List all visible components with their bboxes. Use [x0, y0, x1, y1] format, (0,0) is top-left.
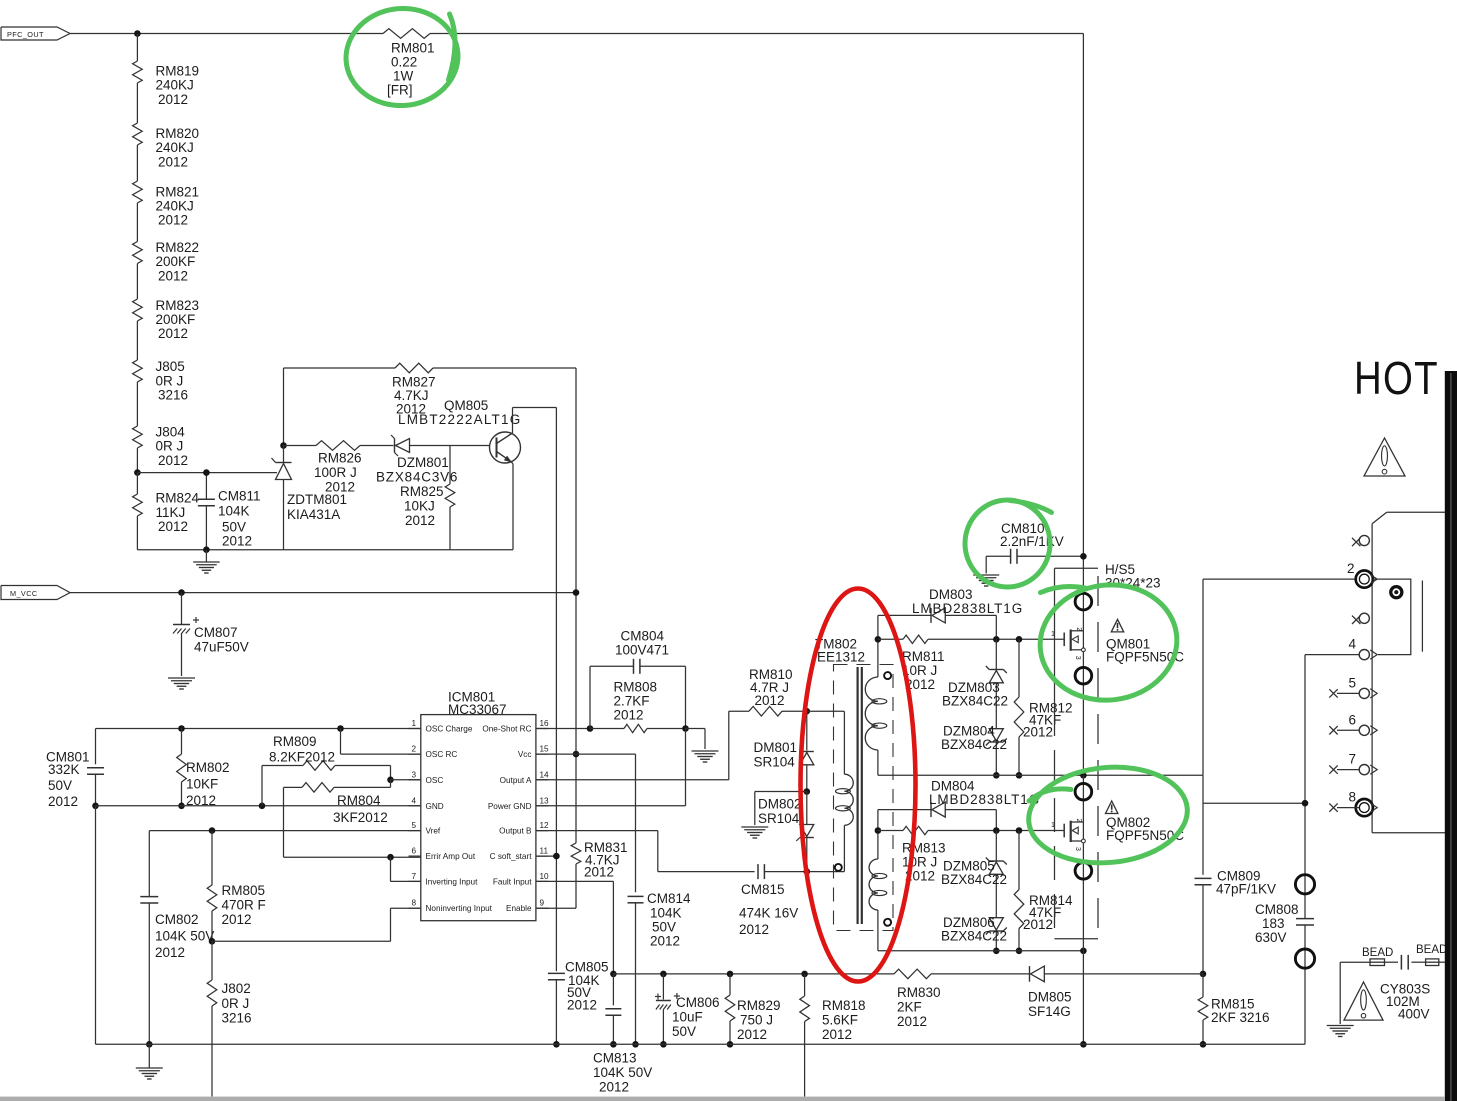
- capacitor CM810: [986, 521, 1083, 574]
- svg-text:4: 4: [1349, 637, 1357, 652]
- connector pin 5: [1329, 675, 1377, 698]
- resistor RM810: [749, 667, 807, 716]
- junction oneshot left: [587, 725, 594, 732]
- svg-text:200KF: 200KF: [156, 312, 196, 327]
- svg-text:One-Shot RC: One-Shot RC: [482, 725, 531, 734]
- junction pin8 node: [209, 938, 216, 945]
- junction lower rail main: [1080, 948, 1087, 955]
- svg-text:J802: J802: [222, 981, 251, 996]
- bottom band: [0, 1097, 1445, 1101]
- junction pin11 softstart: [553, 853, 560, 860]
- svg-text:RM808: RM808: [614, 680, 658, 695]
- connector pin 2: [1347, 561, 1377, 588]
- svg-text:50V: 50V: [652, 920, 676, 935]
- connector key mark: [1389, 585, 1403, 599]
- svg-text:BZX84C22: BZX84C22: [941, 929, 1007, 944]
- junction winding-top: [875, 636, 882, 643]
- wire pin8 jog: [212, 908, 421, 941]
- wire chain above junction: [136, 448, 138, 473]
- junction RM815 top: [1200, 971, 1207, 978]
- svg-text:RM830: RM830: [897, 985, 941, 1000]
- transformer lower secondary: [869, 831, 891, 951]
- wire primary top: [807, 710, 844, 712]
- svg-text:13: 13: [540, 796, 550, 805]
- svg-text:RM823: RM823: [156, 298, 200, 313]
- resistor RM824: [133, 491, 200, 534]
- zener DZM804 BZX84C22: [941, 724, 1007, 776]
- svg-text:2012: 2012: [158, 519, 188, 534]
- node M_VCC flag: [1, 586, 70, 600]
- resistor RM826: [284, 441, 394, 495]
- junction CM811 top: [203, 469, 210, 476]
- svg-text:11: 11: [540, 847, 549, 856]
- svg-text:104K 50V: 104K 50V: [593, 1065, 652, 1080]
- svg-text:2: 2: [1075, 819, 1082, 823]
- svg-text:2.2nF/1KV: 2.2nF/1KV: [1000, 534, 1064, 549]
- wire PFC_OUT top rail right: [430, 33, 1083, 35]
- junction CM815 DM802: [804, 868, 811, 875]
- svg-text:QM805: QM805: [444, 398, 488, 413]
- svg-text:RM829: RM829: [737, 998, 781, 1013]
- junction pin1 RM802: [178, 725, 185, 732]
- svg-text:1W: 1W: [393, 69, 414, 84]
- svg-text:200KF: 200KF: [156, 254, 196, 269]
- svg-text:1: 1: [1051, 631, 1055, 638]
- wire chain above RM819: [136, 34, 138, 62]
- svg-text:3: 3: [411, 770, 416, 779]
- svg-text:2012: 2012: [755, 693, 785, 708]
- svg-text:50V: 50V: [672, 1024, 696, 1039]
- svg-text:RM825: RM825: [400, 484, 444, 499]
- svg-text:2012: 2012: [48, 794, 78, 809]
- op-amp ICM801 pins: [409, 719, 550, 913]
- wire pgnd vertical: [685, 729, 687, 806]
- wire midpoint rail: [878, 774, 1203, 776]
- svg-text:Output B: Output B: [499, 827, 532, 836]
- svg-text:100R J: 100R J: [314, 465, 357, 480]
- wire pin9 stub: [536, 907, 576, 909]
- svg-text:3KF2012: 3KF2012: [333, 810, 388, 825]
- transformer upper secondary: [865, 639, 891, 775]
- svg-text:2012: 2012: [158, 92, 188, 107]
- wire chain above RM822: [136, 203, 138, 242]
- capacitor CM805: [548, 960, 609, 1045]
- wire left gnd vertical: [95, 806, 97, 1045]
- connector pin 7: [1329, 752, 1377, 775]
- svg-text:2012: 2012: [396, 402, 426, 417]
- capacitor CM806: [655, 974, 720, 1044]
- svg-text:8: 8: [1349, 790, 1357, 805]
- wire pin12 row: [536, 831, 658, 872]
- transformer core: [858, 667, 862, 924]
- ferrite BEAD right: [1416, 944, 1447, 966]
- junction CM801 bottom: [92, 803, 99, 810]
- connector pin 8: [1329, 790, 1377, 817]
- svg-text:6: 6: [1349, 712, 1357, 727]
- wire primary bottom stub: [807, 871, 845, 873]
- capacitor CM809: [1195, 869, 1277, 974]
- junction CM813 bottom: [610, 1041, 617, 1048]
- svg-text:CM802: CM802: [155, 912, 199, 927]
- svg-text:SF14G: SF14G: [1028, 1004, 1071, 1019]
- op-amp controller ICM801 MC33067 box: [421, 690, 536, 921]
- svg-text:RM813: RM813: [902, 841, 946, 856]
- svg-text:CM813: CM813: [593, 1051, 637, 1066]
- svg-text:HOT: HOT: [1354, 353, 1439, 404]
- capacitor CM814: [628, 891, 692, 1044]
- svg-text:RM822: RM822: [156, 240, 200, 255]
- svg-text:2012: 2012: [158, 213, 188, 228]
- svg-text:RM826: RM826: [318, 451, 362, 466]
- svg-text:BZX84C22: BZX84C22: [941, 737, 1007, 752]
- svg-text:OSC: OSC: [426, 776, 444, 785]
- svg-text:104K: 104K: [218, 504, 250, 519]
- svg-text:3: 3: [1074, 847, 1081, 851]
- capacitor CM801: [46, 729, 104, 810]
- svg-text:CM814: CM814: [647, 891, 691, 906]
- wire CY bead row: [1340, 961, 1445, 963]
- junction RM812 bottom: [1016, 772, 1023, 779]
- hot chassis bar: [1445, 371, 1457, 1101]
- svg-text:RM811: RM811: [902, 649, 945, 664]
- junction M_VCC CM807: [178, 589, 185, 596]
- svg-text:DM802: DM802: [758, 797, 802, 812]
- connector pin nc: [1352, 535, 1369, 546]
- svg-text:8: 8: [411, 899, 416, 908]
- wire pin13 row: [536, 805, 686, 807]
- junction pin6 node: [387, 854, 394, 861]
- svg-text:2012: 2012: [567, 998, 597, 1013]
- svg-text:2012: 2012: [822, 1027, 852, 1042]
- wire pin4 net: [1203, 655, 1360, 875]
- svg-text:240KJ: 240KJ: [156, 78, 194, 93]
- transistor QM805 LMBT2222ALT1G: [398, 398, 521, 463]
- svg-text:470R F: 470R F: [222, 898, 266, 913]
- svg-text:2.7KF: 2.7KF: [614, 694, 650, 709]
- wire pin2 jog: [341, 729, 421, 755]
- wire RM827 row right: [433, 367, 576, 369]
- svg-text:2012: 2012: [599, 1080, 629, 1095]
- wire VCC vertical: [575, 368, 577, 843]
- svg-text:2012: 2012: [325, 480, 355, 495]
- wire DM803 row: [878, 615, 931, 639]
- svg-text:183: 183: [1262, 916, 1285, 931]
- junction CM806 top: [660, 971, 667, 978]
- connector body: [1372, 512, 1445, 833]
- svg-text:2012: 2012: [222, 912, 252, 927]
- wire QM805 emitter: [511, 462, 513, 550]
- svg-text:2012: 2012: [650, 934, 680, 949]
- svg-text:BZX84C3V6: BZX84C3V6: [376, 470, 458, 485]
- capacitor CM808 with test points: [1255, 875, 1315, 1045]
- svg-text:2012: 2012: [158, 453, 188, 468]
- wire pin11 stub: [536, 855, 557, 857]
- svg-text:2012: 2012: [737, 1027, 767, 1042]
- svg-text:M_VCC: M_VCC: [10, 589, 38, 598]
- annotation green circle RM801: [343, 5, 461, 110]
- wire chain above RM821: [136, 145, 138, 181]
- junction faultnet rail: [610, 971, 617, 978]
- zener DZM806 BZX84C22: [941, 915, 1007, 951]
- wire RM804 left leg: [284, 787, 421, 857]
- svg-text:Noninverting Input: Noninverting Input: [426, 904, 493, 913]
- diode DZM801: [376, 435, 490, 485]
- wire lower block bottom rail: [878, 950, 1084, 952]
- svg-text:CM807: CM807: [194, 625, 238, 640]
- junction DZM805 top: [993, 827, 1000, 834]
- svg-text:0R J: 0R J: [156, 439, 184, 454]
- svg-text:630V: 630V: [1255, 930, 1287, 945]
- svg-text:2: 2: [411, 745, 416, 754]
- wire M_VCC rail: [70, 592, 576, 594]
- svg-text:2012: 2012: [158, 326, 188, 341]
- junction RM829 bottom: [727, 1041, 734, 1048]
- diode DM805 SF14G: [1028, 966, 1203, 1019]
- ground oneshot: [692, 751, 719, 762]
- wire ref node horizontal: [137, 472, 277, 474]
- annotation green circle QM801: [1034, 577, 1184, 708]
- svg-text:750 J: 750 J: [740, 1013, 773, 1028]
- svg-text:RM804: RM804: [337, 793, 381, 808]
- junction RM818 top: [801, 971, 808, 978]
- svg-text:332K: 332K: [48, 762, 80, 777]
- svg-text:RM819: RM819: [156, 64, 200, 79]
- resistor RM804: [284, 780, 391, 825]
- ground CM810: [973, 575, 999, 586]
- wire RM827 row left: [284, 367, 396, 369]
- resistor RM820: [133, 123, 199, 169]
- svg-text:J805: J805: [156, 359, 185, 374]
- connector pin nc: [1352, 613, 1369, 624]
- wire chain above J805: [136, 321, 138, 360]
- svg-text:BZX84C22: BZX84C22: [941, 872, 1007, 887]
- annotation green circle CM810: [965, 500, 1052, 587]
- svg-text:50V: 50V: [222, 520, 246, 535]
- capacitor CM807: [173, 593, 249, 676]
- capacitor CM815: [739, 864, 807, 937]
- transformer primary winding: [835, 711, 853, 871]
- wire oneshot gnd stub: [686, 729, 706, 750]
- capacitor CM804 box: [590, 629, 686, 729]
- svg-text:LMBD2838LT1G: LMBD2838LT1G: [929, 792, 1040, 807]
- resistor RM825: [400, 446, 455, 550]
- wire chain above J804: [136, 382, 138, 426]
- wire pin1 rail: [96, 728, 421, 730]
- wire chain above RM820: [136, 83, 138, 123]
- wire pin3: [391, 779, 421, 781]
- ground CM802: [136, 1044, 163, 1079]
- svg-text:100V471: 100V471: [615, 643, 669, 658]
- resistor RM831: [571, 840, 627, 908]
- junction RM814 top: [1016, 827, 1023, 834]
- resistor RM829: [725, 974, 780, 1044]
- connector pin 4: [1349, 637, 1378, 660]
- wire RM824 lower: [136, 516, 138, 550]
- junction DM801 DM802: [804, 788, 811, 795]
- svg-text:10KJ: 10KJ: [404, 499, 435, 514]
- wire regulator bottom rail: [137, 549, 513, 551]
- diode DM801 SR104: [754, 711, 814, 791]
- heatsink H/S5 outline: [1055, 562, 1161, 939]
- svg-text:OSC Charge: OSC Charge: [426, 725, 473, 734]
- svg-text:RM802: RM802: [186, 760, 230, 775]
- svg-text:10R J: 10R J: [902, 855, 937, 870]
- svg-text:2KF 3216: 2KF 3216: [1211, 1010, 1270, 1025]
- wire RM809 branch: [262, 766, 303, 806]
- svg-text:KIA431A: KIA431A: [287, 507, 340, 522]
- wire chain above RM823: [136, 264, 138, 300]
- svg-text:4: 4: [411, 796, 416, 805]
- svg-text:2: 2: [1075, 627, 1082, 631]
- svg-text:5.6KF: 5.6KF: [822, 1013, 858, 1028]
- wire pin6-7 jog: [391, 857, 421, 881]
- junction RM814 bottom: [1016, 948, 1023, 955]
- resistor RM821: [133, 181, 199, 228]
- svg-text:6: 6: [411, 847, 416, 856]
- svg-text:RM824: RM824: [156, 491, 200, 506]
- resistor RM802: [177, 729, 230, 809]
- svg-text:2012: 2012: [405, 513, 435, 528]
- junction Vcc pin15 node: [573, 751, 580, 758]
- svg-text:GND: GND: [426, 802, 444, 811]
- shunt reference ZDTM801 KIA431A: [272, 446, 348, 550]
- svg-text:Output A: Output A: [500, 776, 532, 785]
- svg-text:CM804: CM804: [621, 629, 665, 644]
- zener DZM803 BZX84C22: [942, 639, 1008, 728]
- svg-text:47pF/1KV: 47pF/1KV: [1216, 882, 1276, 897]
- svg-text:474K 16V: 474K 16V: [739, 906, 798, 921]
- wire main HV vertical: [1082, 34, 1084, 776]
- connector pin2-pin4 link: [1373, 579, 1411, 655]
- svg-text:RM821: RM821: [156, 184, 200, 199]
- resistor RM830: [894, 969, 1030, 1029]
- svg-text:Enable: Enable: [506, 904, 532, 913]
- svg-text:CM815: CM815: [741, 882, 785, 897]
- svg-text:7: 7: [1349, 752, 1357, 767]
- resistor RM818: [800, 974, 866, 1097]
- connector shield line: [1421, 581, 1423, 652]
- svg-text:240KJ: 240KJ: [156, 199, 194, 214]
- wire CM809 branch: [1202, 775, 1204, 875]
- svg-text:SR104: SR104: [758, 811, 800, 826]
- svg-text:2: 2: [1347, 561, 1355, 576]
- capacitor CY803S label: [1380, 982, 1430, 1022]
- svg-text:2012: 2012: [222, 534, 252, 549]
- annotation red ellipse TM802: [801, 589, 916, 982]
- svg-text:16: 16: [540, 719, 550, 728]
- svg-text:2012: 2012: [584, 865, 614, 880]
- wire main vertical lower: [1082, 775, 1084, 1044]
- svg-text:2012: 2012: [897, 1014, 927, 1029]
- svg-text:47uF50V: 47uF50V: [194, 640, 249, 655]
- jumper J805: [133, 359, 188, 402]
- junction DZM806 bottom: [993, 948, 1000, 955]
- connector pin 6: [1329, 712, 1377, 735]
- wire ZDTM801 vertical upper: [283, 368, 285, 446]
- resistor RM809: [269, 734, 391, 780]
- svg-text:[FR]: [FR]: [387, 83, 413, 98]
- svg-text:Vref: Vref: [426, 827, 441, 836]
- junction RM805 top: [209, 827, 216, 834]
- svg-text:104K 50V: 104K 50V: [155, 929, 214, 944]
- svg-text:CM811: CM811: [218, 489, 261, 504]
- wire DM804 row: [878, 810, 931, 831]
- junction main bottom: [1080, 1041, 1087, 1048]
- svg-text:RM820: RM820: [156, 126, 200, 141]
- capacitor CM813: [593, 974, 652, 1095]
- junction pin1 OSCRC: [337, 725, 344, 732]
- svg-text:10: 10: [540, 872, 550, 881]
- svg-text:DM805: DM805: [1028, 990, 1072, 1005]
- diode DM802 SR104: [758, 792, 814, 872]
- label HOT: [1354, 353, 1439, 404]
- svg-text:BEAD: BEAD: [1416, 944, 1447, 956]
- junction CM814 bottom: [632, 1041, 639, 1048]
- junction half-bridge midpoint: [1080, 772, 1087, 779]
- svg-text:15: 15: [540, 745, 550, 754]
- junction RM815 bottom: [1200, 1041, 1207, 1048]
- svg-text:Power GND: Power GND: [488, 802, 532, 811]
- transistor QM802 FQPF5N50C: [1051, 783, 1184, 879]
- wire RM824 upper: [136, 473, 138, 494]
- svg-text:2012: 2012: [158, 154, 188, 169]
- junction RM826 node: [280, 442, 287, 449]
- svg-text:RM809: RM809: [273, 734, 317, 749]
- annotation green circle QM802: [1025, 761, 1192, 869]
- svg-text:OSC RC: OSC RC: [426, 750, 458, 759]
- svg-text:2012: 2012: [1023, 725, 1053, 740]
- svg-text:10uF: 10uF: [672, 1010, 703, 1025]
- ground CM807: [168, 678, 195, 689]
- wire bottom rail: [96, 1043, 1306, 1045]
- transformer TM802 EE1312 boundary: [815, 637, 893, 931]
- resistor RM805: [207, 831, 266, 942]
- svg-text:2KF: 2KF: [897, 1000, 922, 1015]
- junction RM810 DM801: [804, 708, 811, 715]
- svg-text:DM801: DM801: [754, 740, 798, 755]
- svg-text:1: 1: [1051, 822, 1055, 829]
- jumper J804: [133, 425, 188, 468]
- svg-text:0R J: 0R J: [222, 996, 250, 1011]
- svg-text:3216: 3216: [222, 1011, 252, 1026]
- svg-text:8.2KF2012: 8.2KF2012: [269, 750, 335, 765]
- junction RM829 top: [727, 971, 734, 978]
- svg-text:50V: 50V: [48, 778, 72, 793]
- wire CM815 row left: [658, 871, 755, 873]
- wire CY gnd: [1339, 962, 1341, 1024]
- node PFC_OUT flag: [1, 27, 70, 40]
- resistor RM808: [590, 680, 686, 733]
- junction RM824 node: [134, 469, 141, 476]
- svg-text:RM805: RM805: [222, 883, 266, 898]
- warning symbol CY803S: [1344, 982, 1383, 1020]
- svg-text:DZM801: DZM801: [397, 455, 449, 470]
- svg-text:2012: 2012: [155, 945, 185, 960]
- resistor RM813: [878, 826, 1064, 883]
- svg-text:104K: 104K: [650, 906, 682, 921]
- wire Vcc vertical: [635, 754, 637, 892]
- svg-text:240KJ: 240KJ: [156, 140, 194, 155]
- junction DZM803 top: [993, 636, 1000, 643]
- junction top rail: [134, 30, 141, 37]
- junction CM811 bottom: [203, 546, 210, 553]
- junction oneshot right: [682, 725, 689, 732]
- wire pin15 row: [536, 753, 636, 755]
- junction pin4 CM808: [1302, 800, 1309, 807]
- wire midpoint to pin2: [1203, 579, 1356, 775]
- junction lower winding-top: [875, 827, 882, 834]
- wire pin14 row: [536, 779, 729, 781]
